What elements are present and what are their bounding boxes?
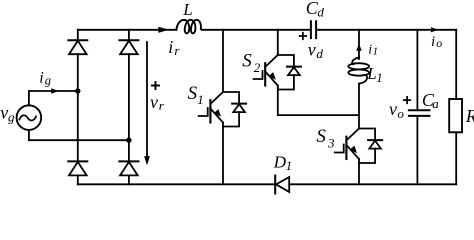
wire L1 to junction [358, 84, 360, 129]
svg-text:L: L [182, 0, 192, 19]
wire top rail left segment [78, 29, 177, 31]
resistor R branch wire top [455, 30, 457, 99]
switch S3 branch wire bottom [358, 159, 360, 184]
svg-text:v: v [389, 99, 397, 119]
switch S1 igbt [199, 92, 223, 123]
resistor R branch wire bottom [455, 132, 457, 184]
wire bridge left leg [77, 30, 79, 185]
svg-text:i: i [368, 42, 372, 57]
svg-text:S: S [188, 83, 198, 104]
resistor R body [449, 99, 462, 132]
switch S3 diode [359, 129, 382, 164]
wire bridge right leg [128, 30, 130, 185]
wire bottom rail right of D1 [289, 183, 456, 185]
wire top rail right segment [316, 29, 456, 31]
v_r arrowhead [144, 156, 150, 165]
inductor L1 branch wire top [358, 30, 360, 59]
node dot on left leg [75, 88, 80, 93]
svg-text:i: i [39, 69, 43, 86]
svg-text:1: 1 [376, 70, 383, 85]
svg-text:o: o [397, 106, 404, 121]
ac source v_g circle [17, 105, 42, 130]
switch S3 igbt [335, 129, 359, 160]
wire top rail middle segment [202, 29, 311, 31]
switch S1 branch wire top [222, 30, 224, 92]
diode bridge bottom-right [119, 161, 138, 175]
wire source bottom [29, 130, 129, 140]
inductor L1 coil [352, 58, 359, 65]
switch S1 diode [223, 92, 246, 127]
arrow i_1 [356, 43, 361, 50]
wire bottom rail left of D1 [78, 183, 275, 185]
svg-text:1: 1 [286, 158, 293, 173]
svg-text:L: L [366, 64, 376, 83]
arrow i_g [51, 88, 59, 93]
svg-text:v: v [150, 92, 158, 112]
diode bridge top-left [68, 40, 87, 54]
switch S2 emitter wire down and right [278, 86, 359, 116]
svg-text:r: r [159, 98, 165, 113]
capacitor C_a branch wire bottom [416, 116, 418, 184]
svg-text:1: 1 [373, 46, 379, 58]
switch S2 igbt [254, 55, 278, 86]
svg-text:1: 1 [197, 92, 204, 107]
svg-text:S: S [316, 126, 326, 147]
arrow i_r [158, 27, 169, 33]
svg-text:i: i [168, 37, 173, 57]
svg-text:g: g [45, 74, 51, 88]
capacitor C_d [311, 21, 316, 38]
plus sign v_r [152, 82, 159, 89]
svg-text:o: o [436, 36, 442, 50]
v_r measure line [146, 42, 148, 157]
svg-text:2: 2 [254, 60, 261, 75]
svg-text:S: S [242, 50, 252, 71]
svg-text:d: d [317, 4, 324, 19]
plus sign C_a [404, 97, 410, 103]
switch S2 diode [278, 55, 301, 90]
svg-text:d: d [316, 46, 323, 61]
diode bridge top-right [119, 40, 138, 54]
svg-text:3: 3 [327, 136, 335, 151]
svg-text:R: R [465, 106, 474, 126]
capacitor C_a branch wire top [416, 30, 418, 110]
inductor L [176, 20, 202, 34]
plus sign v_d [300, 33, 307, 40]
capacitor C_a plates [409, 110, 430, 116]
arrow i_o [431, 27, 439, 32]
svg-text:g: g [8, 109, 15, 124]
switch S2 branch wire top [277, 30, 279, 55]
svg-text:v: v [308, 40, 316, 60]
diode D1 [275, 176, 289, 194]
wire source top stub [29, 91, 78, 105]
ac source sine [20, 115, 37, 120]
switch S1 branch wire bottom [222, 123, 224, 185]
svg-text:a: a [432, 96, 439, 111]
svg-text:v: v [0, 102, 8, 122]
svg-text:i: i [431, 34, 435, 50]
node dot on right leg [126, 138, 131, 143]
diode bridge bottom-left [68, 161, 87, 175]
svg-text:r: r [174, 43, 180, 58]
